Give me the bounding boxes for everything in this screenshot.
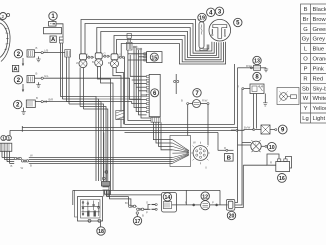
svg-text:G: G bbox=[303, 27, 308, 33]
svg-text:Orange: Orange bbox=[313, 57, 326, 63]
svg-text:Y: Y bbox=[304, 106, 308, 112]
svg-text:15: 15 bbox=[151, 55, 157, 61]
svg-text:R: R bbox=[303, 76, 307, 82]
svg-text:U: U bbox=[205, 166, 207, 170]
svg-text:P: P bbox=[146, 211, 148, 215]
svg-text:P: P bbox=[212, 201, 214, 205]
svg-text:R: R bbox=[237, 85, 239, 89]
svg-text:Lg: Lg bbox=[302, 116, 308, 122]
svg-text:13: 13 bbox=[254, 59, 260, 65]
svg-text:L/B: L/B bbox=[44, 49, 48, 53]
svg-text:B: B bbox=[142, 214, 144, 218]
svg-text:B: B bbox=[304, 7, 308, 13]
svg-text:10: 10 bbox=[269, 145, 275, 151]
svg-text:Y: Y bbox=[119, 53, 121, 57]
svg-text:O: O bbox=[303, 57, 308, 63]
svg-text:B: B bbox=[185, 201, 187, 205]
svg-text:18: 18 bbox=[98, 229, 104, 235]
svg-text:G: G bbox=[104, 52, 106, 56]
svg-text:R: R bbox=[224, 146, 226, 150]
svg-text:B: B bbox=[36, 96, 38, 100]
svg-text:B: B bbox=[36, 46, 38, 50]
svg-text:Green: Green bbox=[313, 27, 326, 33]
svg-text:Br: Br bbox=[303, 17, 309, 23]
svg-text:12: 12 bbox=[202, 194, 208, 200]
svg-text:W: W bbox=[193, 141, 196, 145]
svg-text:Red: Red bbox=[313, 76, 324, 82]
svg-text:B: B bbox=[30, 164, 32, 168]
svg-text:Grey: Grey bbox=[313, 37, 326, 43]
svg-text:14: 14 bbox=[165, 195, 171, 201]
svg-text:Gy: Gy bbox=[302, 37, 310, 43]
svg-text:B: B bbox=[181, 99, 183, 103]
svg-text:Light g: Light g bbox=[313, 116, 326, 122]
svg-text:Sky-bl: Sky-bl bbox=[313, 86, 326, 92]
svg-text:R/W: R/W bbox=[202, 99, 208, 103]
svg-text:2: 2 bbox=[2, 14, 5, 19]
svg-text:Br/W: Br/W bbox=[244, 126, 251, 130]
svg-text:B: B bbox=[227, 156, 231, 162]
svg-text:R: R bbox=[270, 161, 272, 165]
svg-text:R/W: R/W bbox=[246, 64, 252, 68]
svg-text:B: B bbox=[92, 60, 94, 64]
svg-text:G: G bbox=[146, 200, 148, 204]
svg-text:B/R: B/R bbox=[49, 98, 54, 102]
svg-text:17: 17 bbox=[135, 219, 141, 225]
svg-text:Sb: Sb bbox=[302, 86, 309, 92]
svg-text:W: W bbox=[303, 96, 309, 102]
svg-text:Brown: Brown bbox=[313, 17, 326, 23]
svg-text:Blue: Blue bbox=[313, 47, 325, 53]
svg-text:19: 19 bbox=[199, 16, 205, 22]
svg-text:W: W bbox=[21, 166, 24, 170]
svg-text:Yellow: Yellow bbox=[313, 106, 326, 112]
svg-text:Pink: Pink bbox=[313, 67, 324, 73]
svg-text:Black: Black bbox=[313, 7, 326, 13]
svg-text:W: W bbox=[30, 154, 33, 158]
svg-text:G/L: G/L bbox=[44, 74, 49, 78]
svg-text:16: 16 bbox=[279, 176, 285, 182]
svg-text:B: B bbox=[36, 72, 38, 76]
svg-text:B: B bbox=[108, 61, 110, 65]
svg-text:White: White bbox=[313, 96, 326, 102]
svg-text:W: W bbox=[76, 61, 79, 65]
svg-text:Br: Br bbox=[125, 201, 128, 205]
svg-text:B: B bbox=[11, 164, 13, 168]
svg-text:20: 20 bbox=[229, 214, 235, 220]
svg-text:P: P bbox=[304, 67, 308, 73]
